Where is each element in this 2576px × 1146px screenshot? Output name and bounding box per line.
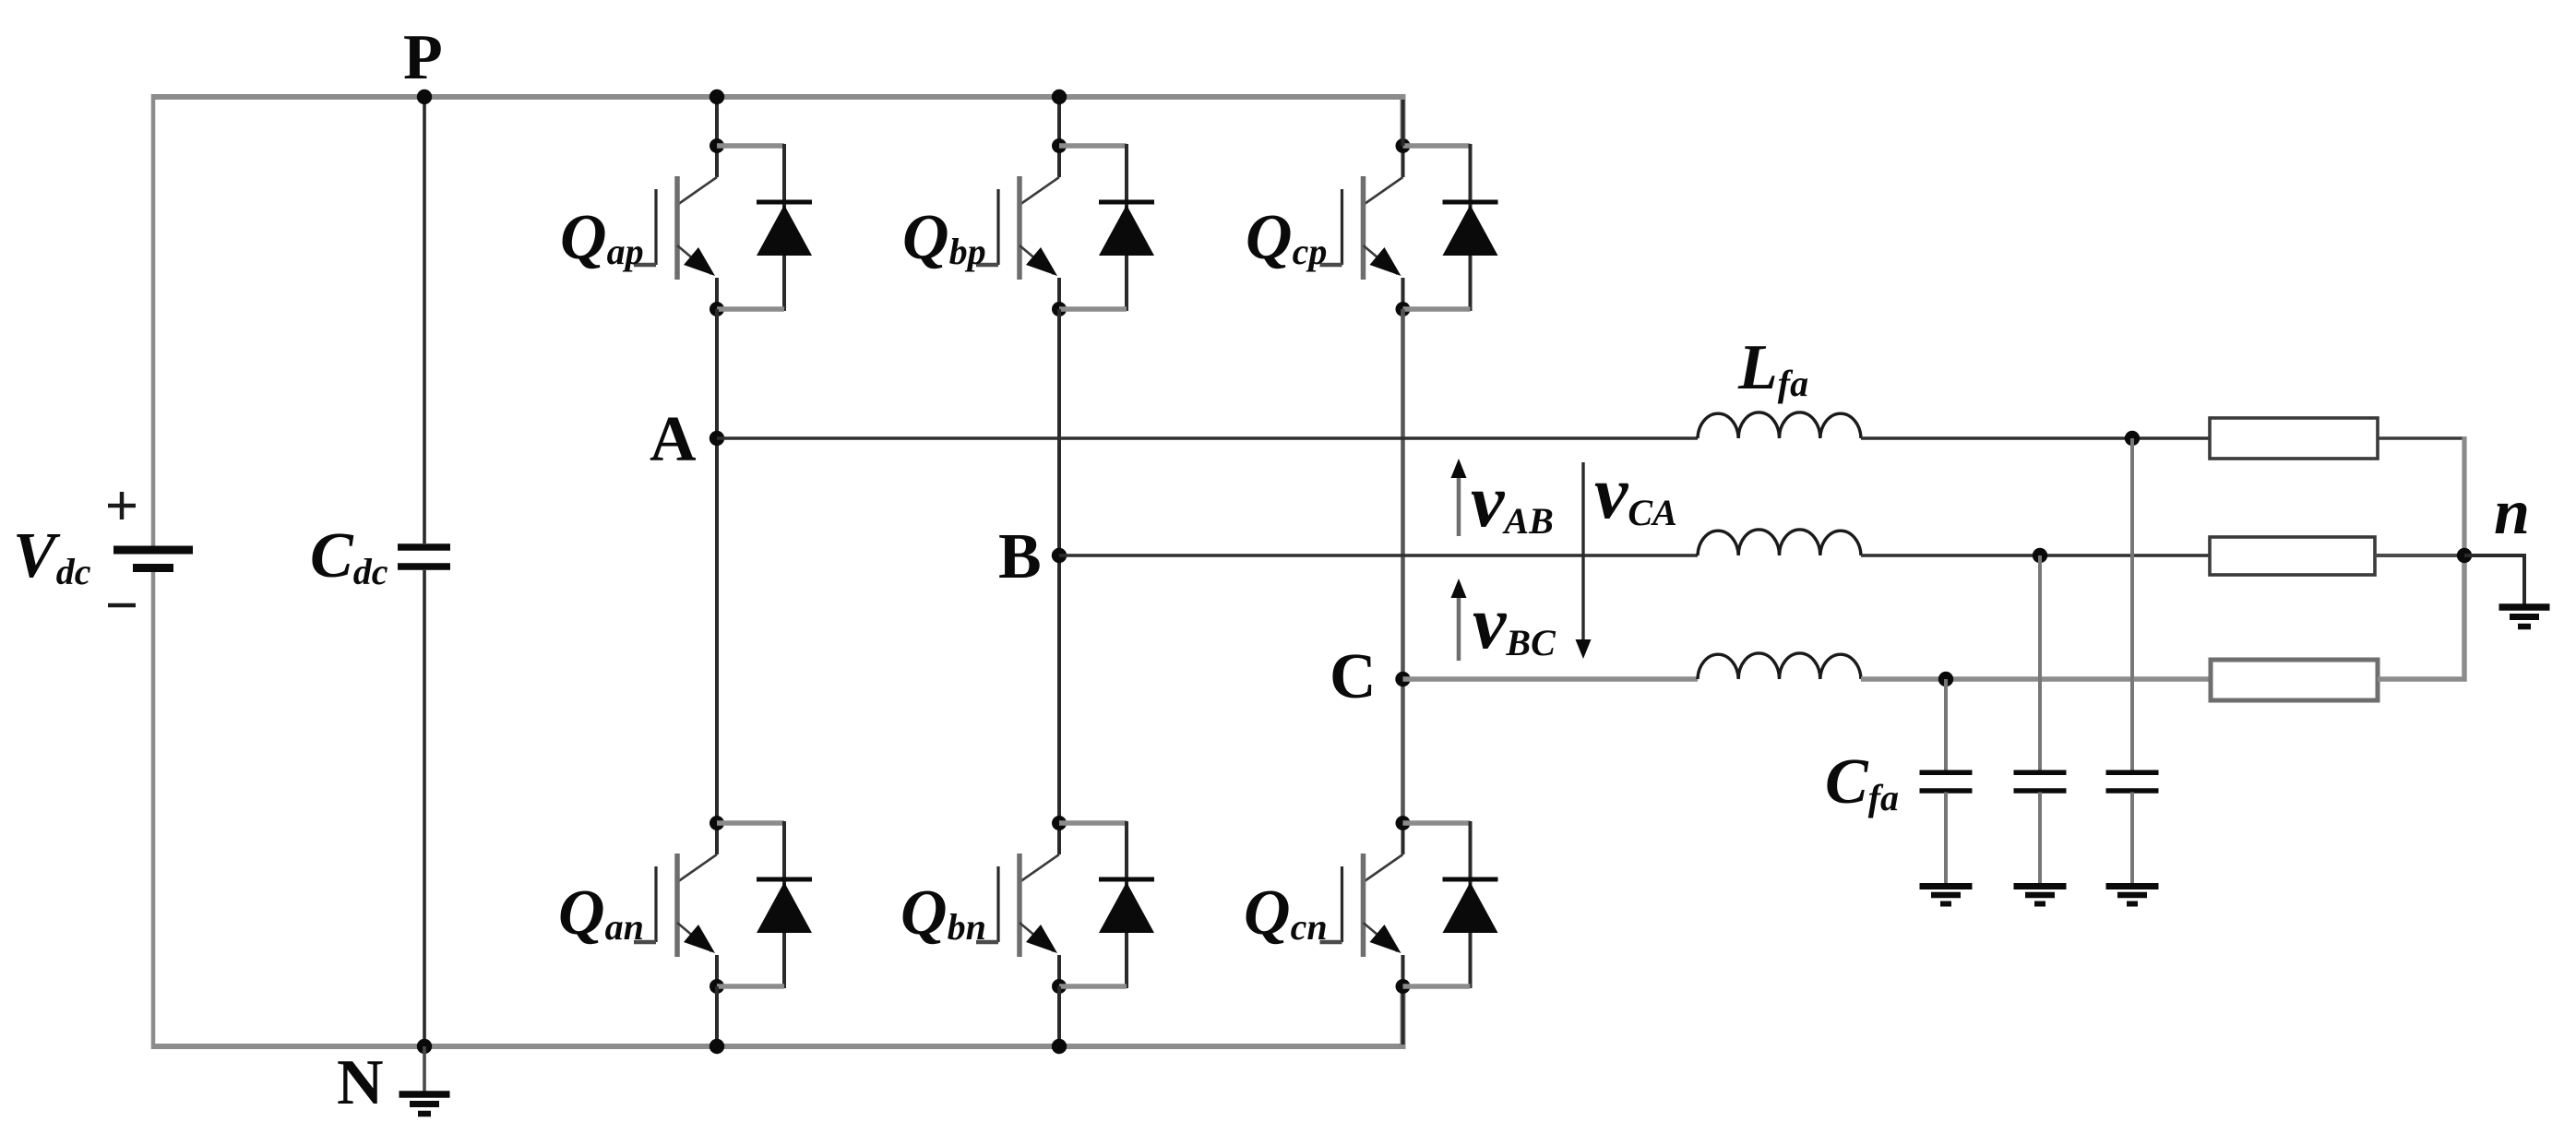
- svg-text:C: C: [1330, 641, 1377, 712]
- ground at N: [400, 1046, 450, 1114]
- junction dot leg B on N rail: [1052, 1039, 1067, 1054]
- svg-text:Lfa: Lfa: [1737, 332, 1808, 404]
- capacitor Cfa phase A: [2106, 438, 2159, 904]
- junction dot leg A on P rail: [710, 90, 724, 104]
- resistor load phase C: [2211, 660, 2378, 700]
- node P: [417, 90, 432, 104]
- wire leg C middle: [1401, 309, 1405, 823]
- svg-text:A: A: [650, 404, 697, 475]
- svg-text:B: B: [998, 521, 1042, 592]
- resistor load phase B: [2210, 537, 2375, 575]
- junction dot leg A on N rail: [710, 1039, 724, 1054]
- svg-text:Cdc: Cdc: [310, 520, 388, 592]
- arrow vCA: [1576, 462, 1592, 659]
- svg-text:N: N: [337, 1047, 384, 1118]
- arrow vBC: [1451, 579, 1467, 661]
- svg-text:Qan: Qan: [558, 877, 644, 949]
- wire leg A top stub: [715, 97, 719, 146]
- diode antiparallel with Qcp: [1403, 144, 1498, 311]
- transistor Qcp (IGBT): [1320, 138, 1411, 316]
- svg-text:Qap: Qap: [560, 202, 644, 273]
- node N: [417, 1039, 432, 1054]
- diode antiparallel with Qan: [717, 821, 812, 988]
- wire leg B top stub: [1057, 97, 1061, 146]
- capacitor Cfc phase C: [1920, 679, 1973, 904]
- svg-text:Cfa: Cfa: [1825, 746, 1899, 818]
- node C: [1395, 672, 1410, 686]
- diode antiparallel with Qap: [717, 144, 812, 311]
- battery Vdc: [108, 492, 193, 605]
- inductor Lfb phase B: [1698, 530, 1861, 555]
- wire leg A bottom stub: [715, 986, 719, 1046]
- svg-text:vBC: vBC: [1473, 580, 1556, 664]
- diode antiparallel with Qcn: [1403, 821, 1498, 988]
- junction dot leg B on P rail: [1052, 90, 1067, 104]
- wire phase B inductor to resistor: [1861, 554, 2210, 557]
- svg-text:n: n: [2494, 477, 2530, 548]
- diode antiparallel with Qbp: [1059, 144, 1154, 311]
- svg-text:vCA: vCA: [1594, 450, 1677, 534]
- ground at n: [2499, 607, 2550, 627]
- svg-text:Qcp: Qcp: [1246, 202, 1327, 273]
- svg-text:Vdc: Vdc: [13, 520, 91, 592]
- junction dot phase C filter cap: [1938, 672, 1953, 686]
- wire leg B bottom stub: [1057, 986, 1061, 1046]
- wire left DC source branch: [151, 94, 156, 1049]
- wire phase C inductor to resistor: [1861, 676, 2211, 682]
- node A: [710, 431, 724, 446]
- transistor Qan (IGBT): [634, 816, 724, 994]
- wire phase B resistor to n: [2375, 554, 2464, 557]
- svg-text:vAB: vAB: [1471, 459, 1554, 543]
- transistor Qbn (IGBT): [976, 816, 1067, 994]
- inductor Lfc phase C: [1698, 653, 1861, 679]
- capacitor Cfb phase B: [2014, 555, 2067, 904]
- junction dot phase B filter cap: [2033, 548, 2047, 563]
- inductor Lfa phase A: [1698, 412, 1861, 438]
- svg-text:Qcn: Qcn: [1244, 877, 1328, 949]
- junction dot phase A filter cap: [2125, 431, 2140, 446]
- resistor load phase A: [2210, 418, 2378, 459]
- wire leg B middle: [1057, 309, 1061, 823]
- transistor Qap (IGBT): [634, 138, 724, 316]
- wire phase A inductor to resistor: [1861, 436, 2210, 440]
- wire phase B to inductor: [1059, 554, 1698, 557]
- svg-text:P: P: [403, 22, 443, 93]
- svg-text:Qbp: Qbp: [902, 202, 986, 273]
- transistor Qcn (IGBT): [1320, 816, 1411, 994]
- diode antiparallel with Qbn: [1059, 821, 1154, 988]
- node B: [1052, 548, 1067, 563]
- transistor Qbp (IGBT): [976, 138, 1067, 316]
- capacitor Cdc: [398, 547, 450, 567]
- wire bottom DC rail N: [153, 986, 1403, 1046]
- wire leg C bottom stub core: [1401, 987, 1405, 1045]
- wire leg C top stub core: [1401, 100, 1405, 146]
- wire Cdc branch: [423, 97, 426, 1046]
- wire phase C to inductor: [1403, 676, 1699, 682]
- wire top DC rail P: [153, 97, 1403, 146]
- node n: [2457, 548, 2472, 563]
- wire phase C resistor to n: [2378, 555, 2464, 679]
- svg-text:Qbn: Qbn: [900, 877, 986, 949]
- wire phase A to inductor: [717, 436, 1698, 440]
- wire leg A middle: [715, 309, 719, 823]
- arrow vAB: [1451, 459, 1467, 536]
- wire phase A resistor to n: [2378, 436, 2463, 440]
- wire n to ground: [2464, 555, 2524, 606]
